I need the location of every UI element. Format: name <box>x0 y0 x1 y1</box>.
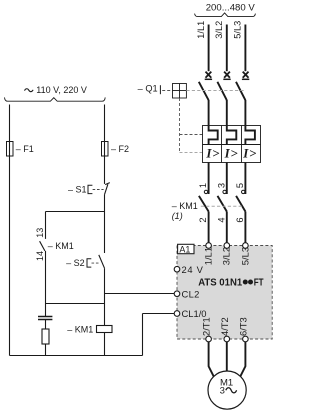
svg-text:5/L3: 5/L3 <box>239 247 250 265</box>
svg-text:4: 4 <box>216 217 226 222</box>
contactor KM1 pole 3 contact <box>236 190 245 242</box>
soft starter ATS01 body <box>177 246 272 340</box>
svg-text:5: 5 <box>235 183 245 188</box>
terminal circle 2/T1 <box>206 336 212 342</box>
svg-text:– KM1: – KM1 <box>67 325 93 335</box>
wire pole1 box to contactor <box>208 162 210 194</box>
terminal circle 5/L3 <box>243 243 249 249</box>
svg-text:– KM1: – KM1 <box>48 241 74 251</box>
wire CL2 tap <box>105 293 175 295</box>
svg-text:1/L1: 1/L1 <box>196 21 206 39</box>
contactor KM1 linkage dashes <box>201 205 244 207</box>
magnetic release pole 1 <box>209 125 218 144</box>
pushbutton S2 linkage dashes <box>92 262 101 264</box>
svg-text:– F2: – F2 <box>111 144 129 154</box>
capacitor C1 <box>38 317 52 320</box>
svg-text:200...480 V: 200...480 V <box>206 3 256 14</box>
wire aux branch lower <box>45 251 47 317</box>
terminal CL2 <box>174 288 200 299</box>
wire aux to rail link <box>46 303 105 305</box>
pushbutton S1 linkage dashes <box>93 189 104 191</box>
breaker Q1 linkage dash vertical <box>179 98 181 153</box>
wire bottom bus <box>10 355 143 357</box>
breaker Q1 linkage branch to thermal release <box>180 152 203 154</box>
wire CL1/0 vertical <box>142 314 144 356</box>
wire resistor to bottom <box>45 344 47 356</box>
wire S1 to S2 <box>104 195 106 253</box>
svg-text:I>: I> <box>224 146 239 161</box>
svg-text:(1): (1) <box>172 211 183 221</box>
svg-text:1: 1 <box>198 183 208 188</box>
breaker Q1 operator box <box>173 84 187 99</box>
pushbutton S2 actuator <box>87 259 91 267</box>
terminal CL1/0 <box>174 308 206 319</box>
svg-text:– S1: – S1 <box>68 185 87 195</box>
wire coil to bottom <box>104 333 106 356</box>
breaker Q1 pole 2 contact symbol <box>217 72 230 126</box>
wire CL1/0 horizontal <box>143 313 175 315</box>
terminal circle 4/T2 <box>224 336 230 342</box>
svg-text:2/T1: 2/T1 <box>201 317 212 336</box>
svg-text:3/L2: 3/L2 <box>221 247 232 265</box>
coil KM1 <box>67 325 112 335</box>
terminal A1 box <box>178 244 194 254</box>
wire T1 to motor <box>209 342 214 377</box>
svg-text:14: 14 <box>35 251 45 261</box>
wire L2 incoming <box>226 25 228 72</box>
wire pole2 box to contactor <box>226 162 228 194</box>
breaker Q1 pole 1 contact symbol <box>199 72 212 126</box>
svg-text:110 V, 220 V: 110 V, 220 V <box>36 85 87 95</box>
wire cap to resistor <box>45 320 47 330</box>
svg-text:13: 13 <box>35 228 45 238</box>
terminal circle 3/L2 <box>224 243 230 249</box>
fuse F1 <box>7 142 34 157</box>
svg-text:1/L1: 1/L1 <box>203 247 214 265</box>
pushbutton S1 NC contact blade <box>105 183 110 195</box>
release box frame <box>203 126 261 163</box>
svg-text:24 V: 24 V <box>182 264 204 275</box>
breaker Q1 linkage branch to magnetic release <box>180 134 203 136</box>
brace top left <box>5 97 106 101</box>
svg-text:– S2: – S2 <box>66 258 85 268</box>
svg-text:5/L3: 5/L3 <box>233 21 243 39</box>
wire right rail top <box>104 105 106 184</box>
wire branch junction <box>46 211 105 213</box>
wire pole3 box to contactor <box>244 162 246 194</box>
svg-text:FT: FT <box>254 278 264 289</box>
wire L3 incoming <box>244 25 246 72</box>
svg-text:ATS 01N1: ATS 01N1 <box>198 278 242 289</box>
breaker Q1 latch tick <box>159 85 161 94</box>
svg-text:I>: I> <box>205 146 220 161</box>
wire S2 to coil <box>104 268 106 325</box>
svg-text:4/T2: 4/T2 <box>219 317 230 336</box>
terminal circle 6/T3 <box>243 336 249 342</box>
magnetic release pole 3 <box>245 125 255 144</box>
pushbutton S1 actuator <box>88 185 92 193</box>
label ~110V 220V <box>25 89 34 92</box>
breaker Q1 linkage dash right <box>186 90 245 92</box>
svg-text:2: 2 <box>198 217 208 222</box>
svg-text:– F1: – F1 <box>16 144 34 154</box>
svg-text:– KM1: – KM1 <box>172 201 198 211</box>
contactor KM1 pole 2 contact <box>218 190 227 242</box>
terminal circle 1/L1 <box>206 243 212 249</box>
svg-text:3: 3 <box>216 183 226 188</box>
breaker Q1 linkage dash left <box>162 90 172 92</box>
svg-text:I>: I> <box>242 146 257 161</box>
pushbutton S2 NO contact blade <box>99 255 105 268</box>
contactor KM1 aux contact blade <box>40 241 45 251</box>
terminal 24V <box>174 264 203 275</box>
svg-text:A1: A1 <box>179 244 190 254</box>
wire aux branch upper <box>45 212 47 239</box>
wire L1 incoming <box>208 25 210 72</box>
wire T2 to motor <box>226 342 228 371</box>
wire left rail <box>9 105 11 356</box>
svg-text:CL2: CL2 <box>182 288 200 299</box>
motor M1 <box>208 371 246 409</box>
magnetic release pole 2 <box>227 125 237 144</box>
svg-text:6/T3: 6/T3 <box>237 317 248 336</box>
fuse F2 <box>102 142 130 157</box>
contactor KM1 pole 1 contact <box>199 190 209 242</box>
svg-text:– Q1: – Q1 <box>138 84 158 94</box>
svg-text:3: 3 <box>220 386 225 397</box>
breaker Q1 pole 3 contact symbol <box>236 72 249 126</box>
brace top right <box>195 13 256 17</box>
svg-text:3/L2: 3/L2 <box>214 21 224 39</box>
resistor R1 <box>42 329 49 344</box>
wire T3 to motor <box>240 342 245 377</box>
svg-text:6: 6 <box>235 217 245 222</box>
